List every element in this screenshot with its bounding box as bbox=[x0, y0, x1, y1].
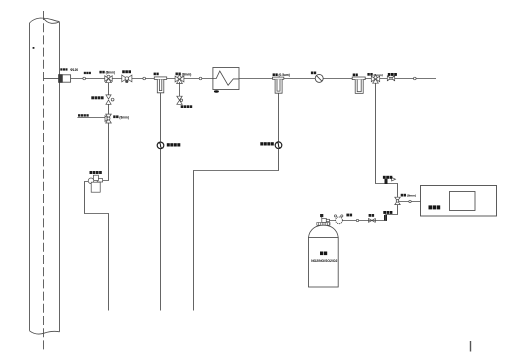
cylinder neck collar bbox=[317, 223, 330, 226]
wire: trap drain to bottom bbox=[85, 182, 109, 311]
V5 label 电磁阀 bbox=[388, 73, 397, 76]
wire: V3 drain drop bbox=[179, 82, 181, 96]
P1 label 采样泵 bbox=[167, 143, 181, 146]
valve V7 three-way cal valve bbox=[395, 197, 400, 204]
probe flange bbox=[59, 75, 63, 83]
stack top rim bbox=[30, 18, 60, 23]
svg-text:NO2/NO/SO2/O2: NO2/NO/SO2/O2 bbox=[311, 259, 337, 263]
node circle (heat-trace) bbox=[83, 77, 86, 80]
valve V1 three-way ball valve bbox=[105, 75, 112, 83]
svg-text:(8mm): (8mm) bbox=[106, 71, 116, 75]
svg-text:Φ120: Φ120 bbox=[70, 68, 78, 72]
border tick bottom right bbox=[470, 341, 472, 352]
pump P2 peristaltic pump bbox=[275, 142, 282, 149]
svg-text:(8mm): (8mm) bbox=[119, 115, 129, 119]
stack right wall bbox=[59, 22, 61, 332]
F1 label 过滤 bbox=[154, 73, 159, 76]
svg-text:(8mm): (8mm) bbox=[407, 194, 416, 198]
stack top inner rim crescent bbox=[44, 19, 60, 24]
analyzer label 分析仪 bbox=[429, 205, 441, 209]
wire: vent line left bbox=[77, 117, 105, 119]
S2 label 电磁阀 bbox=[383, 211, 392, 214]
pressure regulator on cylinder bbox=[336, 217, 343, 224]
regulator label 减压阀 bbox=[346, 214, 352, 217]
svg-text:(0.5um): (0.5um) bbox=[279, 73, 290, 77]
filter F1 bbox=[154, 77, 166, 93]
V1 label 球阀(8mm) bbox=[99, 71, 104, 74]
V2 label 切断阀 bbox=[122, 70, 131, 73]
valve Vb three-way vent valve bbox=[105, 114, 111, 123]
stack centerline (dashed) bbox=[43, 11, 45, 351]
node circle bbox=[143, 77, 146, 80]
NV label 针阀 bbox=[369, 214, 375, 217]
wire: V7 down to cal gas line bbox=[386, 205, 398, 215]
trap label 汽水分离 bbox=[90, 171, 102, 174]
wire: in-stack sample line bbox=[44, 78, 59, 80]
wire: V7 to analyzer bbox=[399, 201, 421, 203]
stack label dot bbox=[33, 47, 35, 49]
svg-text:(8mm): (8mm) bbox=[374, 73, 383, 77]
check valve triangle bbox=[392, 177, 396, 181]
S1 label 电磁阀 bbox=[383, 176, 392, 179]
wire: F2 drop through peristaltic pump bbox=[278, 93, 280, 142]
relief valve label 手动排空 bbox=[181, 105, 193, 108]
F3 label 过滤 bbox=[353, 74, 358, 77]
svg-text:(8mm): (8mm) bbox=[182, 72, 192, 76]
V7 label 三通(8mm) bbox=[401, 194, 406, 197]
gas cylinder dome bbox=[309, 225, 339, 237]
cylinder handwheel bbox=[320, 214, 323, 217]
pump P3 bbox=[315, 74, 323, 82]
wire: cal gas line bbox=[342, 220, 385, 222]
pump P1 sample pump bbox=[157, 142, 164, 149]
wire: F1 drop through sample pump bbox=[160, 93, 162, 311]
gas cylinder body bbox=[309, 238, 339, 288]
cooler U1 (gas cooler box with zigzag) bbox=[213, 68, 239, 90]
node circle bbox=[409, 200, 411, 202]
wire: Vb down to trap bbox=[103, 123, 109, 181]
cylinder label 标气 bbox=[320, 252, 327, 256]
stack bottom break line bbox=[30, 331, 60, 334]
F2 label 过滤(0.5um) bbox=[273, 73, 278, 76]
cooler drain dot bbox=[214, 90, 219, 92]
analyzer screen bbox=[450, 192, 476, 211]
cylinder valve body bbox=[322, 218, 336, 222]
wire: V4 drop bbox=[376, 83, 398, 197]
valve V4 three-way valve bbox=[371, 76, 379, 83]
Va label 手动排污 bbox=[91, 96, 103, 99]
wire: V1 drain drop bbox=[108, 83, 110, 95]
V4 label 三通(8mm) bbox=[367, 73, 372, 76]
analyzer box bbox=[421, 186, 497, 217]
wire: main line after cooler bbox=[239, 78, 437, 80]
vent label 放空口 bbox=[78, 114, 89, 116]
stack left wall bbox=[29, 23, 31, 331]
probe body bbox=[62, 75, 70, 82]
filter F2 bbox=[273, 77, 284, 93]
wire: P2 drain to bottom bbox=[194, 149, 279, 311]
probe label 取样枪 bbox=[60, 68, 67, 70]
needle valve NV bbox=[368, 218, 375, 222]
valve V3 three-way valve bbox=[175, 76, 184, 84]
valve V5 solenoid valve bbox=[387, 76, 394, 81]
node circle on cal line bbox=[356, 219, 358, 221]
valve Va drain valve bbox=[106, 95, 114, 104]
Vb label 三通(8mm) bbox=[113, 115, 118, 118]
label 伴热管 bbox=[84, 72, 91, 74]
condensate trap pump bbox=[88, 175, 102, 192]
solenoid S2 (cal gas lower) bbox=[384, 215, 387, 221]
wire: Va to Vb bbox=[108, 104, 110, 114]
valve V2 shut-off valve bbox=[122, 75, 132, 83]
P2 label 蠕动泵 bbox=[260, 142, 274, 145]
P3 label 气泵 bbox=[311, 72, 316, 75]
node circle near line end bbox=[414, 77, 417, 80]
relief valve below V3 bbox=[177, 96, 183, 104]
node circle before cooler bbox=[199, 77, 202, 80]
solenoid S1 (cal gas upper) bbox=[385, 179, 388, 184]
filter F3 bbox=[352, 77, 365, 93]
V3 label 三通(8mm) bbox=[176, 73, 181, 76]
wire: main sampling line bbox=[71, 78, 213, 80]
